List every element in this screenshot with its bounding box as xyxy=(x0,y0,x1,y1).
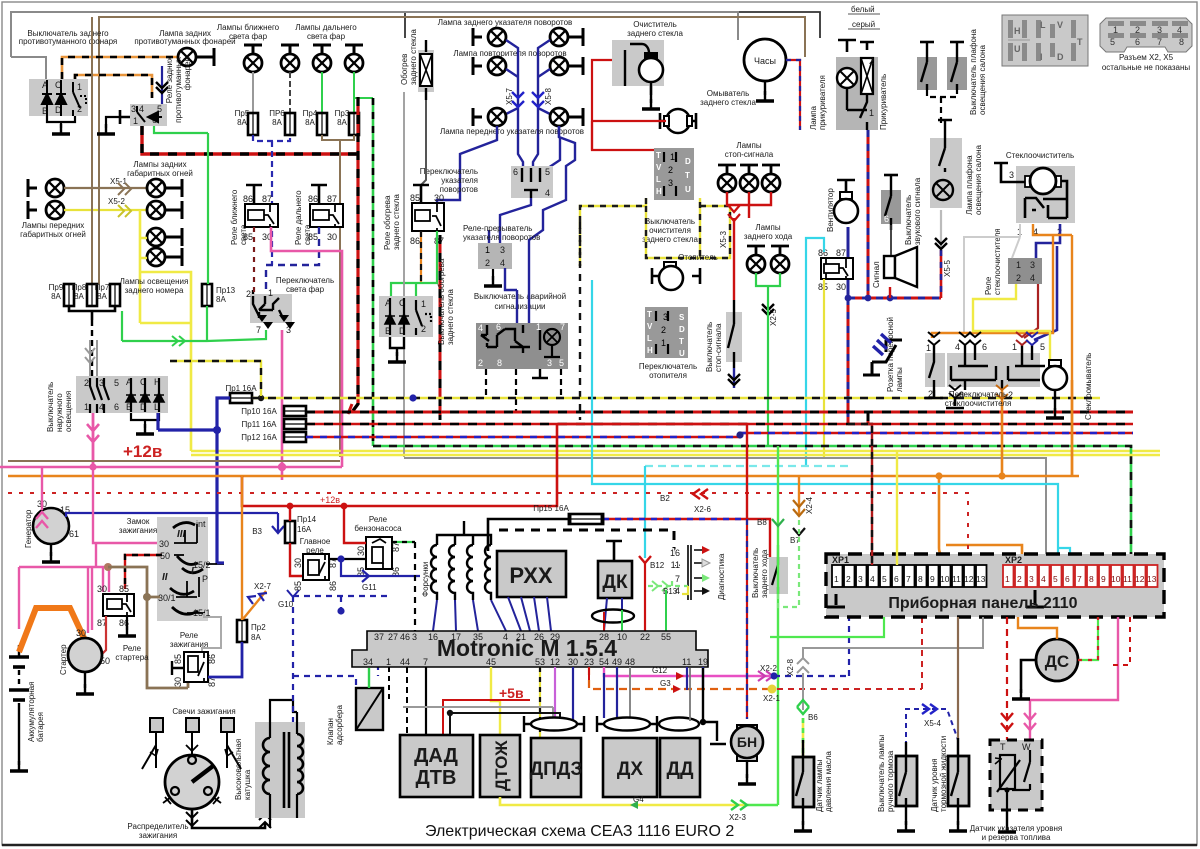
wire black dashed interior switches xyxy=(927,90,957,125)
svg-text:Реле задних: Реле задних xyxy=(165,57,174,103)
relay rear fog box xyxy=(130,104,167,126)
svg-text:Замок: Замок xyxy=(127,517,150,526)
wire red/black vertical x358 xyxy=(352,97,358,412)
handbrake switch xyxy=(896,742,917,825)
svg-text:Лампы ближнего: Лампы ближнего xyxy=(217,23,280,32)
wire black dashed x580 xyxy=(579,222,581,420)
svg-text:86: 86 xyxy=(243,194,253,204)
svg-text:1: 1 xyxy=(421,299,426,309)
svg-text:Реле: Реле xyxy=(180,631,199,640)
stop lamp 1 xyxy=(718,165,736,174)
svg-text:Пр4: Пр4 xyxy=(303,109,318,118)
relay high beam xyxy=(308,185,343,242)
svg-text:85: 85 xyxy=(308,232,318,242)
svg-text:22: 22 xyxy=(640,632,650,642)
instrument panel 2110 xyxy=(826,554,1164,617)
svg-text:поворотов: поворотов xyxy=(440,185,478,194)
brake fluid sensor wire xyxy=(957,617,959,756)
svg-text:Лампы освещения: Лампы освещения xyxy=(120,277,189,286)
front wiper box xyxy=(994,163,1075,223)
wire black fuse bus xyxy=(69,306,115,320)
svg-text:1: 1 xyxy=(268,288,273,298)
svg-text:Клапан: Клапан xyxy=(326,718,335,745)
svg-text:освещения: освещения xyxy=(64,391,73,432)
svg-text:7: 7 xyxy=(256,325,261,335)
fuel level sensor xyxy=(990,740,1042,810)
svg-text:5: 5 xyxy=(1040,342,1045,352)
svg-text:+5в: +5в xyxy=(499,685,524,701)
svg-text:заднего хода: заднего хода xyxy=(744,232,793,241)
wire horn switch to horn xyxy=(890,225,892,255)
svg-text:P: P xyxy=(202,574,208,584)
wire gray lamp to X5-5 xyxy=(940,210,942,247)
svg-text:Пр15 16А: Пр15 16А xyxy=(533,504,569,513)
svg-text:Выключатель: Выключатель xyxy=(904,195,913,245)
wire yellow/black hazard feed xyxy=(170,361,261,398)
svg-text:8: 8 xyxy=(497,358,502,368)
svg-text:T: T xyxy=(656,151,661,160)
wire orange X2-4 xyxy=(798,476,800,515)
wire green/black vertical x373 xyxy=(372,98,375,446)
svg-text:+12в: +12в xyxy=(123,442,162,461)
wire blue dashed G10 xyxy=(293,596,392,722)
wire dark heated window element down xyxy=(421,100,426,185)
svg-text:Лампы передних: Лампы передних xyxy=(22,221,85,230)
svg-text:Разъем Х2, Х5: Разъем Х2, Х5 xyxy=(1119,53,1174,62)
svg-text:РХХ: РХХ xyxy=(509,563,553,588)
rear marker lamp 3 xyxy=(147,228,165,246)
wire cyan fan relay xyxy=(806,238,824,466)
stop lamp 3 xyxy=(762,165,780,174)
svg-text:6: 6 xyxy=(982,342,987,352)
svg-text:Отопитель: Отопитель xyxy=(678,253,718,262)
wire red/black vertical x440 xyxy=(439,235,442,420)
svg-text:В3: В3 xyxy=(252,527,262,536)
svg-text:Выключатель: Выключатель xyxy=(705,322,714,372)
svg-text:6: 6 xyxy=(114,402,119,412)
svg-text:Выключатель: Выключатель xyxy=(645,217,695,226)
svg-text:заднего стекла: заднего стекла xyxy=(627,29,683,38)
svg-text:Пр10 16А: Пр10 16А xyxy=(241,407,277,416)
svg-text:16А: 16А xyxy=(297,525,312,534)
svg-text:освещения салона: освещения салона xyxy=(974,144,983,215)
wire green valve to pin34 xyxy=(368,668,370,688)
wire brown marker lamps xyxy=(64,187,147,189)
hazard switch box xyxy=(476,322,568,369)
svg-text:G3: G3 xyxy=(660,679,671,688)
svg-text:U: U xyxy=(1014,44,1021,54)
wire blue turn trunk right xyxy=(533,40,550,168)
svg-text:Реле обогрева: Реле обогрева xyxy=(383,195,392,250)
wire black Pr15 left xyxy=(488,519,570,551)
svg-text:1: 1 xyxy=(834,574,839,584)
svg-text:44: 44 xyxy=(400,657,410,667)
svg-text:света фар: света фар xyxy=(229,32,268,41)
svg-text:Пр3: Пр3 xyxy=(335,109,350,118)
svg-text:Форсунки: Форсунки xyxy=(421,562,430,597)
ground relay fog xyxy=(120,110,130,124)
svg-text:заднего стекла: заднего стекла xyxy=(700,98,756,107)
svg-text:G11: G11 xyxy=(362,583,377,592)
wire injectors to ECU xyxy=(433,600,506,631)
svg-text:2: 2 xyxy=(846,574,851,584)
svg-text:Приборная панель 2110: Приборная панель 2110 xyxy=(888,595,1077,612)
bus green/black y445 xyxy=(373,446,1131,565)
svg-text:H: H xyxy=(656,187,662,196)
sensor DD xyxy=(660,738,700,797)
svg-text:15/2: 15/2 xyxy=(193,560,211,570)
bus yellow/black y398 xyxy=(252,394,1100,401)
stop lamp switch xyxy=(726,300,742,368)
svg-text:стоп-сигнала: стоп-сигнала xyxy=(714,323,723,372)
wire green heated relay to diode switch xyxy=(391,231,437,296)
wire hazard to bus xyxy=(486,369,561,412)
svg-text:Очиститель: Очиститель xyxy=(633,20,677,29)
panel connector XP2 pins xyxy=(1003,565,1158,587)
svg-text:заднего хода: заднего хода xyxy=(760,549,769,598)
wire DK to ECU oval xyxy=(604,598,622,631)
svg-text:S: S xyxy=(679,313,685,322)
svg-text:5: 5 xyxy=(882,574,887,584)
svg-text:30: 30 xyxy=(293,558,303,568)
interior light switch 2 xyxy=(947,42,967,90)
wire pink outdoor switch down xyxy=(92,413,95,467)
svg-text:4: 4 xyxy=(1030,273,1035,283)
wire blue hazard xyxy=(505,268,529,323)
svg-text:ДПДЗ: ДПДЗ xyxy=(530,759,583,780)
wire red washer xyxy=(592,60,654,150)
svg-text:Свечи зажигания: Свечи зажигания xyxy=(172,707,235,716)
wire green DS xyxy=(1078,617,1098,660)
svg-text:ДД: ДД xyxy=(666,759,694,780)
wire blue wiper pin2 xyxy=(1034,224,1060,340)
interior light switch 1 xyxy=(917,42,937,90)
DK box xyxy=(598,541,632,598)
svg-text:8А: 8А xyxy=(237,118,247,127)
reverse lamp 1 xyxy=(747,246,765,255)
svg-text:8А: 8А xyxy=(216,295,226,304)
svg-text:17: 17 xyxy=(451,632,461,642)
svg-text:4: 4 xyxy=(139,104,144,114)
wire green lamp to fuse Pr3 + branch xyxy=(354,72,373,113)
ground outdoor switch xyxy=(131,413,159,428)
svg-text:противотуманного фонаря: противотуманного фонаря xyxy=(19,37,118,46)
svg-text:2: 2 xyxy=(1016,273,1021,283)
svg-text:V: V xyxy=(1057,20,1063,30)
svg-text:87: 87 xyxy=(836,248,846,258)
ignition coil xyxy=(255,700,305,828)
wire G3 red dashed xyxy=(589,667,770,689)
svg-text:зажигания: зажигания xyxy=(139,831,177,840)
svg-text:9: 9 xyxy=(930,574,935,584)
svg-text:Реле ближнего: Реле ближнего xyxy=(230,189,239,245)
svg-text:заднего стекла: заднего стекла xyxy=(392,194,401,250)
wire green to pin10/55 xyxy=(622,590,666,631)
svg-text:3: 3 xyxy=(500,245,505,255)
wire gray sensor common xyxy=(403,707,553,718)
label B12 xyxy=(639,556,651,563)
svg-text:указателя поворотов: указателя поворотов xyxy=(463,233,540,242)
svg-text:19: 19 xyxy=(698,657,708,667)
svg-text:ДТОЖ: ДТОЖ xyxy=(492,740,511,791)
horn switch box xyxy=(881,175,901,230)
svg-text:U: U xyxy=(685,185,691,194)
svg-text:2: 2 xyxy=(84,378,89,388)
wires into XP1 from above xyxy=(848,424,872,565)
svg-text:10: 10 xyxy=(940,574,950,584)
svg-text:4: 4 xyxy=(1177,25,1182,35)
wire black dashed to diagnostics xyxy=(499,530,685,566)
svg-text:2: 2 xyxy=(485,258,490,268)
svg-text:3: 3 xyxy=(1030,260,1035,270)
label X2-3 xyxy=(731,800,747,810)
svg-text:Х5-8: Х5-8 xyxy=(544,88,553,105)
RXX box xyxy=(497,551,566,597)
svg-text:заднего стекла: заднего стекла xyxy=(642,235,698,244)
wire red stop switch down xyxy=(733,218,735,300)
svg-text:Лампы задних: Лампы задних xyxy=(133,160,186,169)
wire green reverse switch xyxy=(778,520,799,607)
wire gray vertical x404 xyxy=(403,92,405,457)
svg-text:3: 3 xyxy=(1009,170,1014,180)
svg-text:Х2-4: Х2-4 xyxy=(805,497,814,514)
svg-text:1: 1 xyxy=(485,245,490,255)
svg-text:Пр8: Пр8 xyxy=(72,283,87,292)
bus yellow y451/455 xyxy=(191,454,1160,457)
wire red/blue main vertical and horn bus xyxy=(845,130,941,424)
rear wiper motor box xyxy=(612,40,664,95)
svg-text:30: 30 xyxy=(434,193,444,203)
svg-text:2: 2 xyxy=(869,56,874,66)
wire blue Pr2 to ignition relay xyxy=(208,642,242,677)
svg-text:сигнализации: сигнализации xyxy=(494,302,545,311)
svg-text:5: 5 xyxy=(559,358,564,368)
svg-text:Пр14: Пр14 xyxy=(297,515,317,524)
svg-text:12: 12 xyxy=(1135,574,1145,584)
svg-text:5: 5 xyxy=(114,378,119,388)
svg-text:В6: В6 xyxy=(808,713,818,722)
wire dark lamp to fuse Pr6 xyxy=(289,72,291,113)
ground diode switch xyxy=(390,337,404,356)
svg-text:Х5-2: Х5-2 xyxy=(108,197,125,206)
svg-text:Х2-6: Х2-6 xyxy=(694,505,711,514)
svg-text:30: 30 xyxy=(356,546,366,556)
lamp front turn right xyxy=(550,108,568,126)
svg-text:Пр11 16А: Пр11 16А xyxy=(242,420,278,429)
clock label xyxy=(744,39,786,81)
svg-text:Лампа заднего указателя поворо: Лампа заднего указателя поворотов xyxy=(438,18,573,27)
ground rear wiper xyxy=(650,86,652,103)
svg-text:V: V xyxy=(647,322,653,331)
svg-text:49: 49 xyxy=(612,657,622,667)
relay heated window xyxy=(410,185,444,246)
svg-text:Х5-3: Х5-3 xyxy=(719,231,728,248)
svg-text:1: 1 xyxy=(926,343,931,353)
harness ovals sensors xyxy=(531,718,577,731)
bus orange y476 xyxy=(8,380,1079,565)
svg-text:Генератор: Генератор xyxy=(24,509,33,548)
svg-text:13: 13 xyxy=(976,574,986,584)
wire gray lock 15/1 xyxy=(202,613,221,656)
svg-text:11: 11 xyxy=(682,657,691,667)
svg-text:стартера: стартера xyxy=(115,653,149,662)
svg-text:L: L xyxy=(1040,20,1046,30)
svg-text:ДК: ДК xyxy=(602,572,628,593)
svg-text:29: 29 xyxy=(550,632,560,642)
wire red Pr14 xyxy=(290,506,303,576)
lamp low beam 2 xyxy=(281,45,299,54)
svg-text:23: 23 xyxy=(584,657,594,667)
svg-text:Пр12 16А: Пр12 16А xyxy=(241,433,277,442)
svg-text:стоп-сигнала: стоп-сигнала xyxy=(725,150,774,159)
svg-text:28: 28 xyxy=(599,632,609,642)
svg-text:Датчик уровня: Датчик уровня xyxy=(930,758,939,812)
svg-text:Выключатель: Выключатель xyxy=(46,382,55,432)
battery xyxy=(9,645,29,765)
svg-text:Стартер: Стартер xyxy=(59,644,68,675)
svg-text:1: 1 xyxy=(1016,260,1021,270)
svg-text:7: 7 xyxy=(1157,37,1162,47)
rear wiper switch box xyxy=(654,148,694,200)
headlamp selector switch xyxy=(246,288,295,335)
svg-text:85: 85 xyxy=(293,581,303,591)
svg-text:Выключатель: Выключатель xyxy=(751,548,760,598)
svg-text:Лампы дальнего: Лампы дальнего xyxy=(295,23,357,32)
svg-text:1: 1 xyxy=(133,116,138,126)
svg-text:Пр13: Пр13 xyxy=(216,286,236,295)
svg-text:85: 85 xyxy=(410,193,420,203)
horn symbol xyxy=(884,247,917,287)
svg-text:2: 2 xyxy=(246,289,251,299)
svg-text:В12: В12 xyxy=(650,561,665,570)
front marker lamp 2 xyxy=(28,201,37,219)
fan motor xyxy=(834,180,858,223)
spark plug 3 xyxy=(221,718,241,769)
svg-text:86: 86 xyxy=(410,236,420,246)
svg-text:Омыватель: Омыватель xyxy=(707,89,750,98)
svg-text:Реле: Реле xyxy=(123,644,142,653)
svg-text:V: V xyxy=(656,163,662,172)
svg-text:1: 1 xyxy=(670,152,675,162)
svg-text:давления масла: давления масла xyxy=(824,751,833,812)
svg-text:Х5-4: Х5-4 xyxy=(924,719,941,728)
svg-text:Выключатель лампы: Выключатель лампы xyxy=(877,735,886,812)
svg-text:4: 4 xyxy=(870,574,875,584)
svg-text:H: H xyxy=(1014,26,1021,36)
svg-text:Реле-прерыватель: Реле-прерыватель xyxy=(463,224,532,233)
svg-text:54: 54 xyxy=(599,657,609,667)
wire pink generator xyxy=(36,467,48,528)
svg-text:II: II xyxy=(162,572,168,583)
svg-text:6: 6 xyxy=(1065,574,1070,584)
wire blue fan to relay xyxy=(847,227,850,298)
svg-text:3: 3 xyxy=(412,632,417,642)
svg-text:ручного тормоза: ручного тормоза xyxy=(886,750,895,812)
wire red/black lock 50 xyxy=(125,555,162,589)
svg-text:Выключатель обогрева: Выключатель обогрева xyxy=(437,258,446,345)
red net right xyxy=(557,424,770,557)
svg-text:D: D xyxy=(679,325,685,334)
rear marker lamp 4 xyxy=(147,248,165,266)
svg-text:87: 87 xyxy=(262,194,272,204)
svg-text:9: 9 xyxy=(1101,574,1106,584)
wire gray lamp to fuse Pr5 xyxy=(252,72,254,113)
svg-text:ХР1: ХР1 xyxy=(832,555,849,565)
svg-text:6: 6 xyxy=(496,322,501,332)
lamp repeater right xyxy=(550,57,568,75)
ignition lock box xyxy=(157,517,224,621)
lamp front turn left xyxy=(473,108,482,126)
svg-text:освещения салона: освещения салона xyxy=(978,44,987,115)
svg-text:30: 30 xyxy=(173,677,183,687)
svg-text:10: 10 xyxy=(617,632,627,642)
svg-text:L: L xyxy=(656,175,661,184)
svg-text:T: T xyxy=(1077,37,1083,47)
svg-text:8А: 8А xyxy=(337,118,347,127)
wiper switch box xyxy=(925,332,1045,400)
svg-text:Главное: Главное xyxy=(300,537,331,546)
svg-text:фонарей: фонарей xyxy=(183,57,192,90)
svg-text:86: 86 xyxy=(308,194,318,204)
svg-text:7: 7 xyxy=(1077,574,1082,584)
svg-text:3: 3 xyxy=(1157,25,1162,35)
svg-text:21: 21 xyxy=(516,632,526,642)
svg-text:53: 53 xyxy=(535,657,545,667)
svg-text:3: 3 xyxy=(858,574,863,584)
oil pressure sensor wire green xyxy=(770,617,884,637)
connector legend X1 xyxy=(1002,15,1088,66)
svg-text:Переключатель: Переключатель xyxy=(420,167,478,176)
svg-text:3: 3 xyxy=(1029,574,1034,584)
svg-text:D: D xyxy=(685,157,691,166)
brake fluid sensor xyxy=(948,738,969,825)
ECU Motronic M 1.5.4 xyxy=(352,631,708,667)
wire gray to fog switch xyxy=(11,57,46,80)
wire orange dashed fog circuit xyxy=(62,57,178,98)
svg-text:3: 3 xyxy=(547,358,552,368)
spark plug 2 xyxy=(186,718,199,755)
injector coils xyxy=(431,521,491,600)
svg-text:12: 12 xyxy=(550,657,560,667)
ground flasher xyxy=(492,269,494,280)
svg-text:4: 4 xyxy=(955,342,960,352)
svg-text:4: 4 xyxy=(500,258,505,268)
svg-text:8: 8 xyxy=(918,574,923,584)
spark plug 1 xyxy=(142,718,163,769)
svg-text:Стеклоомыватель: Стеклоомыватель xyxy=(1084,353,1093,420)
wire cyan long xyxy=(592,280,1070,565)
clock ground xyxy=(764,81,766,95)
svg-text:46: 46 xyxy=(400,632,410,642)
svg-text:Стеклоочиститель: Стеклоочиститель xyxy=(1006,151,1074,160)
svg-text:Прикуриватель: Прикуриватель xyxy=(879,74,888,130)
svg-text:8А: 8А xyxy=(272,118,282,127)
wire blue dashed under fuses Pr5 Pr6 xyxy=(253,135,290,265)
svg-text:Электрическая схема СЕАЗ 1116: Электрическая схема СЕАЗ 1116 EURO 2 xyxy=(425,823,734,840)
svg-text:1: 1 xyxy=(1005,574,1010,584)
DS ground xyxy=(1021,660,1036,693)
wire green/black fuel pump out xyxy=(392,541,415,543)
lamp rear fog xyxy=(178,48,196,66)
svg-text:серый: серый xyxy=(852,20,875,29)
svg-text:85: 85 xyxy=(173,654,183,664)
svg-text:7: 7 xyxy=(560,322,565,332)
heater switch box xyxy=(645,307,688,358)
svg-text:30: 30 xyxy=(327,232,337,242)
svg-text:Лампы: Лампы xyxy=(755,223,781,232)
svg-text:Лампа повторителя поворотов: Лампа повторителя поворотов xyxy=(453,49,566,58)
svg-text:2: 2 xyxy=(668,165,673,175)
